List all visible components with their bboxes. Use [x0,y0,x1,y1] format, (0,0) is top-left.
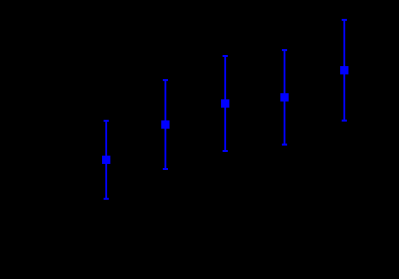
error bar 1 [102,121,110,199]
error bar 3 [221,56,229,151]
error bar 4 [280,50,288,145]
error bar 5 [340,20,348,121]
error bar 2 [161,80,169,169]
